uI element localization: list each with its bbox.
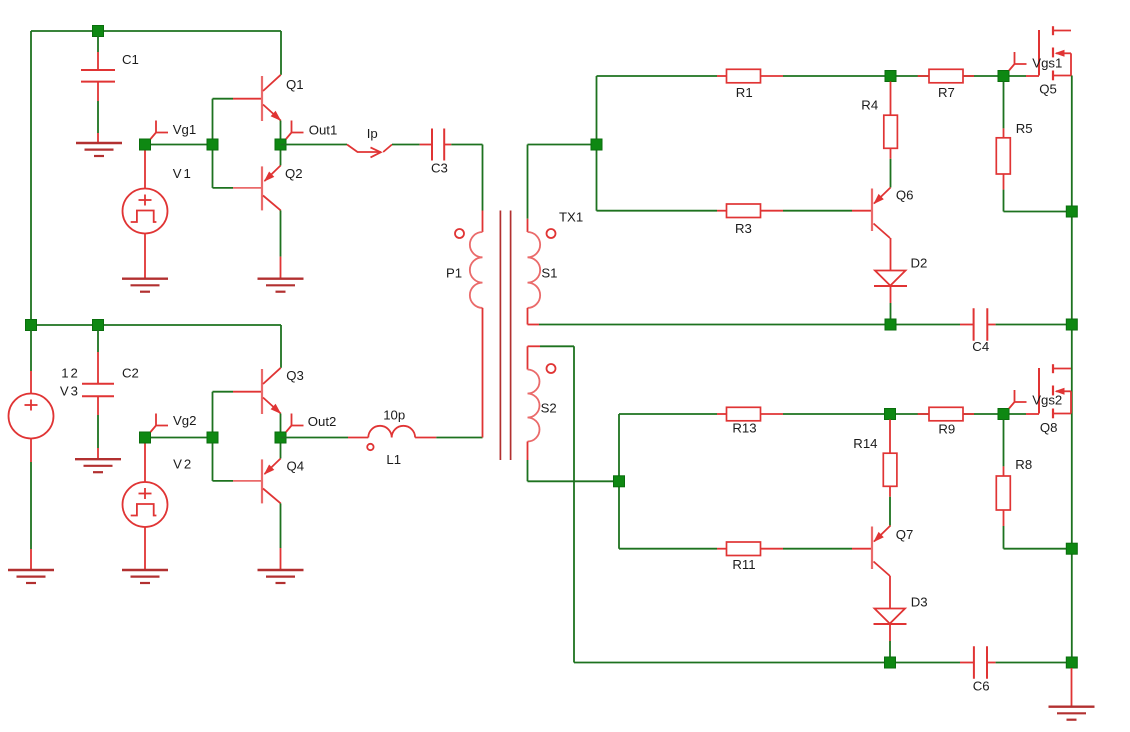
svg-text:Vgs2: Vgs2 — [1032, 392, 1062, 407]
svg-text:Q6: Q6 — [896, 188, 914, 203]
svg-text:C4: C4 — [972, 339, 989, 354]
svg-text:R13: R13 — [732, 420, 756, 435]
svg-text:Q7: Q7 — [896, 527, 914, 542]
svg-text:Q1: Q1 — [286, 77, 304, 92]
svg-text:Out1: Out1 — [309, 123, 338, 138]
svg-text:V2: V2 — [173, 457, 193, 472]
svg-text:R8: R8 — [1015, 457, 1032, 472]
svg-text:Vgs1: Vgs1 — [1032, 56, 1062, 71]
svg-text:C3: C3 — [431, 160, 448, 175]
svg-text:R4: R4 — [861, 97, 878, 112]
svg-text:10p: 10p — [383, 408, 405, 423]
svg-text:Vg2: Vg2 — [173, 413, 196, 428]
svg-text:R3: R3 — [735, 221, 752, 236]
svg-text:R14: R14 — [853, 436, 877, 451]
svg-text:L1: L1 — [386, 452, 401, 467]
svg-text:C6: C6 — [973, 679, 990, 694]
svg-text:Q8: Q8 — [1040, 420, 1058, 435]
svg-text:C2: C2 — [122, 366, 139, 381]
svg-text:R5: R5 — [1016, 121, 1033, 136]
svg-text:V1: V1 — [173, 166, 193, 181]
svg-text:Out2: Out2 — [308, 414, 337, 429]
svg-text:R7: R7 — [938, 85, 955, 100]
svg-text:P1: P1 — [446, 266, 462, 281]
svg-text:Vg1: Vg1 — [173, 122, 196, 137]
svg-text:Q4: Q4 — [287, 459, 305, 474]
svg-text:Q3: Q3 — [286, 368, 304, 383]
svg-text:S2: S2 — [541, 401, 557, 416]
svg-text:R11: R11 — [732, 557, 755, 572]
svg-text:S1: S1 — [541, 266, 557, 281]
svg-text:12: 12 — [61, 366, 80, 381]
svg-text:R1: R1 — [736, 85, 753, 100]
svg-text:TX1: TX1 — [559, 209, 583, 224]
svg-text:D3: D3 — [911, 595, 928, 610]
svg-text:D2: D2 — [911, 256, 928, 271]
svg-text:C1: C1 — [122, 52, 139, 67]
svg-text:V3: V3 — [60, 383, 80, 398]
svg-text:Q2: Q2 — [285, 166, 303, 181]
svg-text:Ip: Ip — [367, 126, 378, 141]
svg-text:Q5: Q5 — [1039, 81, 1057, 96]
svg-text:R9: R9 — [938, 422, 955, 437]
